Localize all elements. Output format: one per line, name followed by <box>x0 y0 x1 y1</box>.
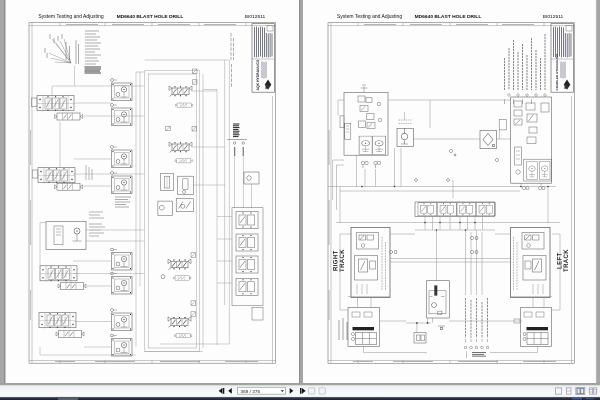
svg-text:AQK HYDRAULICS: AQK HYDRAULICS <box>256 59 260 90</box>
svg-text:BI012511: BI012511 <box>543 14 564 20</box>
svg-text:369 / 376: 369 / 376 <box>241 389 261 394</box>
svg-text:CRAWLER HYDRAULICS: CRAWLER HYDRAULICS <box>555 54 559 91</box>
svg-text:System Testing and Adjusting: System Testing and Adjusting <box>38 14 103 20</box>
svg-text:MD6640 BLAST HOLE DRILL: MD6640 BLAST HOLE DRILL <box>117 14 184 20</box>
svg-text:TRACK: TRACK <box>340 249 346 272</box>
svg-text:RIGHT: RIGHT <box>334 250 340 271</box>
svg-text:TRACK: TRACK <box>564 249 570 272</box>
svg-text:BI012511: BI012511 <box>245 14 266 20</box>
svg-text:System Testing and Adjusting: System Testing and Adjusting <box>337 14 402 20</box>
svg-text:MD6640 BLAST HOLE DRILL: MD6640 BLAST HOLE DRILL <box>415 14 482 20</box>
svg-text:LEFT: LEFT <box>558 252 564 269</box>
